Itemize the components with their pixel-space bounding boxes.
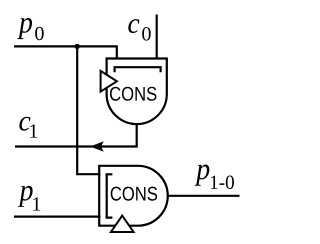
label p0 bbox=[17, 18, 43, 40]
bracket mark inside U1 bbox=[115, 67, 161, 72]
arrowhead pointing left on c1 wire bbox=[90, 141, 104, 152]
buffer triangle on U2 bottom edge bbox=[111, 216, 134, 232]
CONS text U2 bbox=[111, 187, 157, 201]
label c0 bbox=[128, 19, 150, 40]
label c1 bbox=[19, 117, 37, 138]
gate U1 CONS bbox=[107, 59, 167, 125]
wire U2 output (p1-0 net) bbox=[168, 195, 240, 197]
wire from junction down then right into gate U2 bbox=[77, 46, 100, 174]
label p1 bbox=[18, 186, 40, 211]
CONS text U1 bbox=[110, 87, 156, 101]
bracket mark inside U2 bbox=[107, 174, 113, 217]
wire p0 horizontal into gate U1 top bbox=[14, 46, 117, 58]
wire p1 into gate U2 bbox=[14, 216, 101, 218]
gate U2 CONS bbox=[99, 166, 168, 226]
label p1-0 bbox=[195, 164, 234, 189]
wire c0 vertical into gate U1 top bbox=[156, 15, 158, 59]
wire U1 output down then left (c1 net) bbox=[15, 123, 137, 147]
node junction on p0 wire bbox=[75, 44, 80, 49]
buffer triangle on U1 left edge bbox=[101, 71, 117, 92]
